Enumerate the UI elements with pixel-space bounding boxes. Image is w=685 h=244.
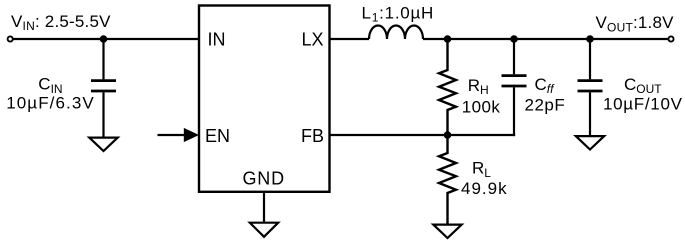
ground RL: [433, 225, 461, 238]
svg-text:100k: 100k: [462, 97, 501, 116]
svg-text:RH: RH: [468, 76, 489, 97]
svg-text:22pF: 22pF: [525, 96, 566, 115]
resistor RH: [439, 39, 456, 135]
svg-text:GND: GND: [243, 168, 285, 188]
wire GND pin stem: [263, 192, 265, 223]
svg-text:RL: RL: [472, 159, 491, 180]
svg-text:VIN: 2.5-5.5V: VIN: 2.5-5.5V: [11, 12, 111, 33]
capacitor COUT: [578, 81, 603, 91]
node VOUT output terminal: [668, 36, 673, 41]
wire RH node to Cff node: [448, 38, 515, 40]
svg-text:49.9k: 49.9k: [461, 179, 508, 198]
resistor RL: [439, 135, 456, 225]
svg-text:10µF/6.3V: 10µF/6.3V: [6, 93, 95, 112]
capacitor CIN: [91, 81, 116, 91]
capacitor Cff: [502, 76, 527, 86]
capacitor Cff bottom lead: [513, 87, 515, 136]
capacitor COUT top lead: [589, 39, 591, 79]
node RH top junction: [444, 35, 452, 43]
svg-text:Cff: Cff: [535, 75, 556, 96]
EN arrowhead: [184, 128, 199, 142]
ground IC: [250, 223, 278, 237]
svg-text:LX: LX: [302, 30, 324, 50]
svg-text:10µF/10V: 10µF/10V: [603, 95, 683, 114]
node Cff top junction: [510, 35, 518, 43]
wire Cff node to COUT node: [514, 38, 590, 40]
svg-text:VOUT:1.8V: VOUT:1.8V: [596, 13, 675, 34]
wire COUT node to VOUT terminal: [590, 38, 668, 40]
node COUT top junction: [586, 35, 594, 43]
node FB junction: [444, 131, 452, 139]
node VIN input terminal: [8, 36, 13, 41]
wire inductor to RH node: [423, 38, 448, 40]
svg-text:L1:1.0µH: L1:1.0µH: [362, 4, 435, 25]
svg-text:COUT: COUT: [624, 75, 662, 96]
svg-text:EN: EN: [205, 126, 230, 146]
ground COUT: [576, 136, 604, 149]
EN input arrow wire: [158, 134, 187, 136]
wire CIN bottom lead: [102, 92, 104, 137]
op: IC U1 regulator body: [199, 6, 330, 192]
capacitor Cff top lead: [513, 39, 515, 74]
wire LX to inductor: [330, 38, 370, 40]
capacitor COUT bottom lead: [589, 92, 591, 136]
svg-text:IN: IN: [208, 30, 226, 50]
svg-text:FB: FB: [301, 126, 324, 146]
node CIN junction: [100, 35, 108, 43]
wire VIN to IN pin: [13, 38, 199, 40]
wire FB rail: [330, 134, 516, 136]
inductor L1: [369, 26, 423, 40]
ground CIN: [89, 138, 117, 151]
wire CIN top lead: [102, 39, 104, 79]
